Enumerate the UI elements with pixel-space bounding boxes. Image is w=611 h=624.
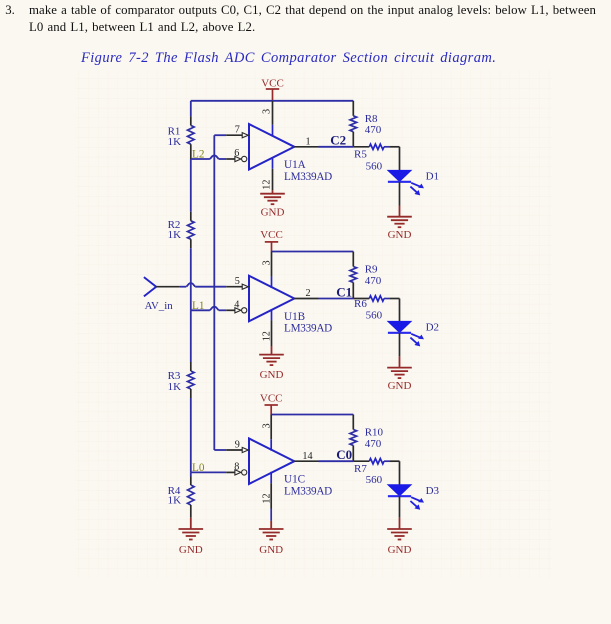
svg-text:R6: R6 (354, 298, 367, 310)
pin 3 (V+ supply, U1A) (272, 101, 274, 125)
svg-text:1K: 1K (168, 229, 182, 241)
diode D2 (LED) (388, 321, 411, 332)
pin 3 (V+ supply, U1C) (270, 415, 272, 440)
svg-text:4: 4 (234, 299, 239, 310)
wire to pin 9 of U1C (214, 449, 226, 451)
ground symbol below U1C (270, 521, 272, 529)
svg-text:1K: 1K (168, 136, 182, 148)
svg-text:470: 470 (365, 124, 382, 136)
input port AV_in (144, 277, 156, 296)
svg-text:D1: D1 (426, 170, 439, 182)
node L0 wire from ladder to pin 8 of U1C (191, 471, 226, 473)
svg-text:560: 560 (366, 161, 383, 173)
ground symbol below D2 (399, 356, 401, 367)
svg-text:GND: GND (261, 206, 285, 218)
resistor R6 560 (353, 298, 369, 300)
figure caption (81, 50, 496, 67)
svg-text:D3: D3 (426, 485, 440, 497)
wire VCC rail (stage U1C) (271, 414, 353, 416)
paragraph line 1 (29, 3, 596, 18)
svg-text:U1B: U1B (284, 311, 305, 323)
svg-text:R10: R10 (365, 427, 384, 439)
wire AV_in to pin 5 of U1B (180, 286, 186, 288)
resistor R9 470 (350, 267, 357, 283)
pin 8 (inverting input, U1C) (226, 471, 235, 473)
pin 12 (V- supply, U1B) (271, 309, 273, 320)
svg-text:R9: R9 (365, 264, 378, 276)
svg-text:VCC: VCC (260, 229, 283, 241)
wire output net C1 (319, 298, 354, 300)
svg-text:12: 12 (261, 180, 272, 190)
svg-text:R5: R5 (354, 149, 367, 161)
node L2 wire from ladder to pin 6 of U1A (191, 158, 210, 160)
wire D2 cathode to ground (399, 333, 401, 357)
svg-text:U1C: U1C (284, 473, 305, 485)
svg-text:C0: C0 (336, 447, 352, 462)
pin 9 (non-inverting input, U1C) (226, 449, 242, 451)
ladder wire L1 to R3 (190, 310, 192, 362)
svg-text:L0: L0 (192, 462, 205, 474)
resistor R5 560 (353, 146, 369, 148)
svg-text:GND: GND (259, 544, 283, 556)
pin 12 (V- supply, U1C) (270, 472, 272, 483)
resistor R8 470 (350, 116, 357, 132)
pin AV_in (156, 286, 180, 288)
wire down to D3 (399, 461, 401, 485)
svg-text:LM339AD: LM339AD (284, 171, 332, 183)
ground symbol below U1A (272, 190, 274, 193)
wire output net C2 (319, 146, 354, 148)
svg-text:L1: L1 (192, 300, 204, 312)
svg-text:6: 6 (234, 148, 239, 159)
diode D1 (LED) (388, 170, 411, 181)
svg-text:1K: 1K (168, 495, 182, 507)
svg-text:AV_in: AV_in (145, 300, 174, 312)
pin 7 (non-inverting input, U1A) (226, 134, 242, 136)
ground symbol below U1B (271, 346, 273, 355)
svg-text:2: 2 (305, 288, 310, 299)
svg-text:12: 12 (261, 493, 272, 503)
pin 12 (V- supply, U1A) (272, 157, 274, 168)
svg-text:VCC: VCC (261, 77, 284, 89)
svg-text:560: 560 (366, 474, 383, 486)
pin 4 (inverting input, U1B) (226, 309, 235, 311)
svg-text:5: 5 (235, 276, 240, 287)
svg-text:GND: GND (179, 544, 203, 556)
svg-text:3: 3 (262, 423, 273, 428)
ladder wire R2 to L1 (190, 248, 192, 310)
wire down to D2 (399, 299, 401, 322)
svg-text:1K: 1K (168, 381, 182, 393)
pin 1 (output, U1A) (294, 146, 318, 148)
resistor R10 470 (350, 430, 357, 446)
wire D3 cathode to ground (399, 496, 401, 518)
svg-text:560: 560 (366, 309, 383, 321)
svg-text:GND: GND (260, 369, 284, 381)
wire rail corner down to R9 (352, 252, 354, 267)
pin 3 (V+ supply, U1B) (271, 252, 273, 277)
wire to pin 7 of U1A (214, 134, 226, 136)
svg-text:GND: GND (388, 380, 412, 392)
svg-text:12: 12 (261, 331, 272, 341)
op-amp comparator U1A LM339AD (249, 124, 294, 170)
ground symbol below D1 (399, 206, 401, 217)
ground symbol below D3 (399, 518, 401, 529)
node L1 wire from ladder to pin 4 of U1B (191, 309, 210, 311)
diode D3 (LED) (388, 485, 411, 496)
svg-text:9: 9 (235, 439, 240, 450)
svg-text:470: 470 (365, 275, 382, 287)
svg-text:GND: GND (388, 544, 412, 556)
paragraph item number (5, 3, 15, 18)
wire D1 cathode to ground (399, 182, 401, 206)
op-amp comparator U1B LM339AD (249, 276, 294, 322)
svg-text:D2: D2 (426, 321, 439, 333)
pin 6 (inverting input, U1A) (226, 158, 235, 160)
pin 2 (output, U1B) (294, 298, 318, 300)
svg-text:C2: C2 (330, 133, 346, 148)
svg-text:C1: C1 (336, 284, 352, 299)
ladder wire L0 to R4 (190, 472, 192, 476)
wire VCC rail (stage U1A) (191, 100, 353, 102)
svg-text:3: 3 (262, 260, 273, 265)
wire rail corner down to R8 (352, 101, 354, 116)
wire VCC rail (stage U1B) (272, 251, 354, 253)
svg-text:470: 470 (365, 438, 382, 450)
svg-text:14: 14 (302, 451, 312, 462)
ground symbol below R4 (ladder) (190, 518, 192, 529)
svg-text:8: 8 (234, 462, 239, 473)
pin 5 (non-inverting input, U1B) (226, 286, 242, 288)
resistor R7 560 (353, 460, 369, 462)
svg-text:L2: L2 (192, 149, 204, 161)
svg-text:LM339AD: LM339AD (284, 323, 332, 335)
pin 14 (output, U1C) (294, 460, 318, 462)
resistor R3 1K (190, 362, 192, 371)
resistor ladder wire (VCC to R1) (190, 101, 192, 117)
resistor R4 1K (190, 477, 192, 486)
svg-text:R8: R8 (365, 113, 378, 125)
wire down to D1 (399, 147, 401, 171)
svg-text:7: 7 (235, 125, 240, 136)
resistor R2 1K (190, 212, 192, 221)
svg-text:U1A: U1A (284, 159, 306, 171)
ladder wire L2 to R2 (190, 159, 192, 212)
svg-text:3: 3 (262, 109, 273, 114)
svg-text:LM339AD: LM339AD (284, 485, 332, 497)
wire output net C0 (319, 460, 354, 462)
svg-text:GND: GND (388, 229, 412, 241)
resistor R1 1K (190, 116, 192, 125)
wire AV_in vertical distribution line (213, 135, 215, 450)
svg-text:VCC: VCC (260, 393, 283, 405)
wire rail corner down to R10 (352, 415, 354, 430)
svg-text:1: 1 (305, 136, 310, 147)
paragraph line 2 (29, 20, 255, 35)
op-amp comparator U1C LM339AD (249, 438, 294, 484)
ladder wire R3 to L0 (190, 398, 192, 472)
